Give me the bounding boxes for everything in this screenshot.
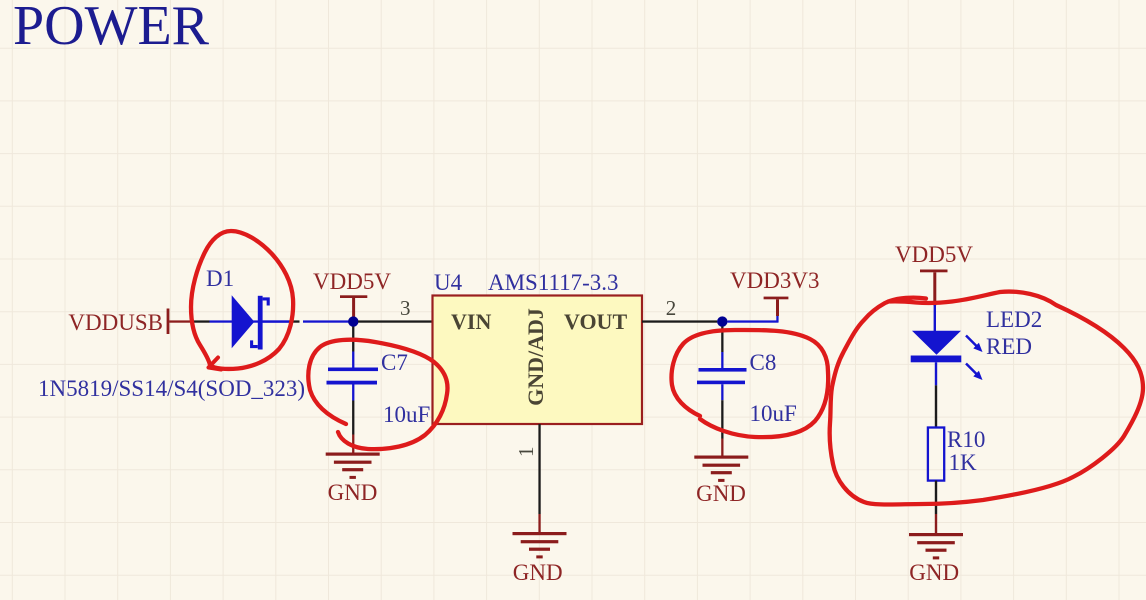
svg-text:1N5819/SS14/S4(SOD_323): 1N5819/SS14/S4(SOD_323) <box>38 376 305 401</box>
wire node A down to C7 (black) <box>352 327 354 352</box>
wire U4 pin 1 to GND (black) <box>538 424 540 514</box>
svg-text:RED: RED <box>986 334 1032 359</box>
svg-text:U4: U4 <box>434 270 463 295</box>
svg-text:VOUT: VOUT <box>564 309 627 334</box>
LED emission arrow 1 <box>966 336 983 353</box>
svg-text:VDD5V: VDD5V <box>895 242 973 267</box>
wire node B down to C8 (black) <box>721 327 723 353</box>
power VDD5V bar symbol (left) <box>340 295 367 317</box>
wire VOUT to node B (black) <box>642 320 717 322</box>
wire to node A (blue) <box>303 320 349 322</box>
wire into D1 anode (blue) <box>210 320 290 322</box>
wire node A to VIN (black) <box>358 320 433 322</box>
svg-text:VDD5V: VDD5V <box>313 269 391 294</box>
ground GND stem (U4) <box>538 514 540 533</box>
svg-text:VIN: VIN <box>451 309 491 334</box>
port VDDUSB bar <box>167 309 192 335</box>
wire VDDUSB to D1 (black) <box>192 320 210 322</box>
annotation circle around C7 <box>308 340 447 449</box>
svg-text:10uF: 10uF <box>750 401 797 426</box>
svg-text:POWER: POWER <box>13 0 210 57</box>
annotation circle around C8 <box>671 330 828 437</box>
ground GND symbol (U4) <box>513 532 567 558</box>
wire VDD5V to LED2 (blue) <box>934 305 936 331</box>
svg-text:10uF: 10uF <box>383 402 430 427</box>
svg-text:AMS1117-3.3: AMS1117-3.3 <box>488 270 619 295</box>
annotation circle around D1 <box>191 231 293 370</box>
capacitor C8 <box>697 352 747 400</box>
svg-text:3: 3 <box>400 296 411 320</box>
diode D1 symbol <box>232 295 269 349</box>
svg-text:1K: 1K <box>949 450 978 475</box>
resistor R10 <box>928 428 944 481</box>
svg-text:C7: C7 <box>381 350 408 375</box>
op-amp U4 regulator body <box>433 296 643 425</box>
capacitor C7 <box>327 352 379 401</box>
LED D2 symbol <box>911 331 962 386</box>
svg-text:VDDUSB: VDDUSB <box>68 310 163 335</box>
svg-text:C8: C8 <box>750 350 777 375</box>
ground GND stem (C7) <box>352 435 354 454</box>
LED emission arrow 2 <box>966 364 983 381</box>
ground GND symbol (C7) <box>326 453 380 479</box>
svg-text:1: 1 <box>514 447 538 458</box>
svg-text:VDD3V3: VDD3V3 <box>730 268 819 293</box>
svg-text:GND: GND <box>513 560 563 585</box>
ground GND symbol (C8) <box>694 456 748 482</box>
svg-text:D1: D1 <box>206 266 234 291</box>
svg-text:GND: GND <box>328 480 378 505</box>
power VDD3V3 bar symbol <box>764 297 789 316</box>
wire D1 cathode (blue) <box>263 320 289 322</box>
svg-text:GND: GND <box>909 560 959 585</box>
power VDD5V bar symbol (right) <box>920 270 948 306</box>
wire C7 to GND (black) <box>352 401 354 435</box>
ground GND symbol (R10) <box>909 533 963 559</box>
wire pin stub (black) <box>289 320 300 322</box>
wire node B to VDD3V3 (blue) <box>728 320 779 322</box>
svg-text:2: 2 <box>666 296 677 320</box>
svg-text:LED2: LED2 <box>986 307 1042 332</box>
wire R10 to GND (black) <box>935 481 937 514</box>
ground GND stem (R10) <box>935 514 937 533</box>
node B junction dot <box>717 316 727 326</box>
annotation circle around LED2 and R10 <box>830 292 1143 505</box>
ground GND stem (C8) <box>721 439 723 457</box>
svg-text:R10: R10 <box>947 427 985 452</box>
node A junction dot <box>348 316 358 326</box>
wire C8 to GND (black) <box>721 400 723 438</box>
wire LED2 to R10 (black) <box>935 385 937 427</box>
svg-text:GND: GND <box>696 481 746 506</box>
svg-text:GND/ADJ: GND/ADJ <box>523 308 548 406</box>
